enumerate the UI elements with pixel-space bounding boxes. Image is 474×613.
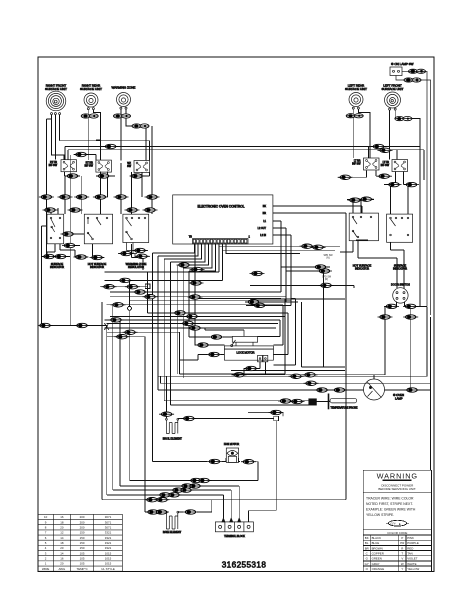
- wire lock loop bottom: [180, 299, 286, 375]
- svg-text:INF SW: INF SW: [352, 162, 361, 165]
- wire sw1 lower link: [65, 172, 150, 176]
- connector RR unit: [81, 114, 98, 118]
- svg-text:L2 OUT: L2 OUT: [258, 227, 267, 230]
- svg-text:20: 20: [60, 546, 64, 550]
- svg-text:3071: 3071: [105, 515, 112, 519]
- infinite switch RT FR: [49, 160, 77, 172]
- connector col c: [74, 195, 89, 199]
- connector box A top: [43, 208, 58, 212]
- wire broil square node: [249, 416, 279, 522]
- svg-text:GREEN: GREEN: [372, 557, 382, 561]
- svg-text:1015: 1015: [105, 556, 112, 560]
- wire below box C: [118, 243, 150, 257]
- sensor TEMPERATURE PROBE: [309, 394, 358, 410]
- motor LOCK MOTOR: [224, 330, 273, 362]
- connector top bus a: [103, 144, 118, 148]
- surface unit LEFT FRONT: [381, 84, 403, 111]
- svg-text:GY: GY: [365, 562, 369, 566]
- wire probe link: [316, 401, 330, 403]
- svg-text:SURFACE UNIT: SURFACE UNIT: [45, 87, 67, 91]
- svg-text:R: R: [401, 546, 403, 550]
- wire spd down: [323, 271, 325, 367]
- connector door d: [403, 315, 418, 319]
- wire fan-out h5: [130, 299, 292, 301]
- wire bundle verticals: [153, 253, 189, 462]
- connector fanout h: [181, 321, 196, 325]
- svg-text:150: 150: [80, 541, 85, 545]
- connector fanout g: [109, 318, 124, 322]
- wire sw1 to sw2 link: [74, 155, 96, 161]
- wire sw4 lower: [347, 200, 374, 214]
- motor FAN MOTOR: [224, 442, 239, 463]
- connector stair2b: [167, 493, 182, 497]
- connector bake R: [183, 510, 198, 514]
- svg-text:YELLOW: YELLOW: [407, 567, 419, 571]
- wire probe feeds: [248, 413, 283, 417]
- svg-text:BROIL ELEMENT: BROIL ELEMENT: [163, 437, 183, 440]
- connector fan R: [241, 460, 256, 464]
- infinite switch LT RR: [352, 158, 379, 170]
- lamp OVEN LAMP: [364, 379, 405, 401]
- controller ELECTRONIC OVEN CONTROL: [173, 195, 273, 244]
- svg-text:16: 16: [60, 515, 64, 519]
- svg-text:PURPLE: PURPLE: [407, 541, 419, 545]
- svg-text:16: 16: [60, 556, 64, 560]
- svg-text:COLOR CODE: COLOR CODE: [387, 531, 407, 535]
- wire stub drops: [258, 305, 288, 355]
- connector stair3b: [197, 478, 212, 482]
- wire bus L2 top: [68, 150, 424, 180]
- wire fan-out h7: [148, 312, 288, 314]
- wire square node: [145, 284, 150, 296]
- svg-text:UL STYLE: UL STYLE: [101, 567, 115, 571]
- wire hub h1: [100, 272, 148, 313]
- wire fan-out h11: [105, 327, 277, 329]
- svg-text:316255318: 316255318: [222, 561, 267, 570]
- connector below sw3: [130, 174, 145, 178]
- svg-text:INF SW: INF SW: [49, 164, 58, 167]
- connector fanout c: [143, 295, 158, 299]
- indicator box SURFACE INDICATOR: [47, 214, 64, 269]
- wire box A lower: [42, 244, 143, 270]
- connector spd d: [317, 269, 332, 273]
- connector broil: [181, 416, 196, 420]
- svg-text:INDICATOR: INDICATOR: [90, 265, 104, 269]
- wire LF surface unit leads: [390, 110, 420, 296]
- wire fan-out h4: [110, 292, 286, 297]
- svg-text:14: 14: [60, 536, 64, 540]
- wire box A feed: [44, 155, 80, 325]
- indicator box HOT SURFACE INDICATOR: [84, 214, 112, 269]
- svg-text:L2 IN: L2 IN: [260, 234, 266, 237]
- svg-text:V: V: [401, 557, 403, 561]
- connector fanout b: [133, 290, 148, 294]
- svg-text:TAN: TAN: [407, 551, 413, 555]
- heating element BROIL ELEMENT: [163, 418, 183, 440]
- connector fanout a: [118, 278, 133, 282]
- connector col d: [93, 195, 108, 199]
- svg-text:G/Y-: G/Y-: [391, 522, 397, 526]
- wire door to lamp: [231, 302, 431, 390]
- wire fan-out h9: [105, 319, 281, 321]
- wire fan-out h2: [105, 250, 223, 280]
- connector tb3: [171, 488, 186, 492]
- wire rbox down: [340, 241, 404, 289]
- wire bus D: [164, 400, 309, 402]
- svg-text:105: 105: [80, 562, 85, 566]
- svg-text:REGULATOR: REGULATOR: [128, 265, 144, 269]
- svg-text:BLUE: BLUE: [372, 541, 380, 545]
- surface unit WARMING ZONE: [112, 86, 136, 110]
- svg-text:C: C: [366, 551, 368, 555]
- svg-text:1015: 1015: [105, 551, 112, 555]
- connector below sw2: [96, 174, 111, 178]
- svg-text:FAN MOTOR: FAN MOTOR: [224, 442, 239, 446]
- connector A-B: [61, 232, 76, 236]
- svg-text:LOCK MOTOR: LOCK MOTOR: [236, 351, 254, 355]
- svg-text:YELLOW STRIPE.: YELLOW STRIPE.: [366, 513, 394, 517]
- connector below sw1: [65, 174, 80, 178]
- wire bus C: [158, 296, 420, 390]
- svg-text:10: 10: [44, 515, 48, 519]
- regulator box WARMING ZONE REGULATOR: [123, 214, 149, 269]
- svg-text:TRACER WIRE: WIRE COLOR: TRACER WIRE: WIRE COLOR: [366, 496, 414, 500]
- connector fanout j: [123, 330, 138, 334]
- connector fanout e: [173, 311, 188, 315]
- indicator box HOT SURFACE INDICATOR (right): [349, 213, 378, 271]
- svg-text:TEMPERATURE PROBE: TEMPERATURE PROBE: [331, 406, 358, 409]
- surface unit LEFT REAR: [345, 84, 367, 110]
- connector fan L: [207, 459, 222, 463]
- wire tb feed1: [120, 486, 239, 518]
- svg-text:105: 105: [80, 556, 85, 560]
- svg-text:105: 105: [80, 551, 85, 555]
- svg-text:LAMP: LAMP: [395, 397, 403, 401]
- connector lock a: [246, 300, 261, 304]
- wire bus B: [161, 317, 431, 383]
- wire lock bottom: [231, 362, 265, 375]
- connector fanout d: [111, 303, 126, 307]
- svg-text:BR: BR: [365, 546, 369, 550]
- wire EOC pins right: [219, 244, 340, 254]
- svg-text:200: 200: [80, 525, 85, 529]
- connector top bus c: [378, 148, 393, 152]
- svg-text:BEFORE SERVICING UNIT.: BEFORE SERVICING UNIT.: [378, 487, 416, 491]
- infinite switch WARM ZONE: [127, 161, 149, 173]
- svg-text:INDICATOR: INDICATOR: [393, 267, 407, 271]
- svg-text:INF SW: INF SW: [381, 164, 390, 167]
- switch ON LAMP SW: [390, 62, 414, 76]
- wire bus A: [158, 306, 427, 376]
- wire gauge table: [38, 514, 122, 571]
- connector pinrow c: [189, 281, 204, 285]
- svg-text:✱ ON LAMP SW: ✱ ON LAMP SW: [391, 62, 414, 66]
- connector sw5 a: [387, 182, 402, 186]
- connector pinrow d: [188, 295, 203, 299]
- svg-text:GRAY: GRAY: [372, 562, 380, 566]
- connector box C top: [125, 208, 140, 212]
- connector mid right: [319, 283, 334, 287]
- svg-text:WARNING: WARNING: [377, 471, 418, 480]
- svg-text:(N): (N): [326, 258, 329, 260]
- wire LR surface unit leads: [353, 109, 370, 158]
- svg-text:TERMINAL BLOCK: TERMINAL BLOCK: [224, 535, 245, 538]
- connector col b: [58, 195, 73, 199]
- connector sw4 b: [377, 174, 392, 178]
- wire bus E: [171, 390, 364, 405]
- svg-text:INDICATOR: INDICATOR: [50, 265, 64, 269]
- connector below B2: [90, 255, 105, 259]
- connector lock d: [196, 343, 211, 347]
- label SPD SW (N): [323, 255, 333, 260]
- svg-text:BLACK: BLACK: [372, 536, 382, 540]
- wire door sw bottom: [385, 302, 427, 391]
- connector lock c: [209, 335, 224, 339]
- surface unit RIGHT FRONT (dual coil): [45, 84, 67, 115]
- wire right low: [430, 383, 432, 470]
- wire fan-out h10: [107, 322, 279, 324]
- surface unit RIGHT REAR: [80, 84, 102, 110]
- svg-text:SURFACE UNIT: SURFACE UNIT: [345, 87, 367, 91]
- connector pinrow b: [190, 267, 205, 271]
- wire tb feed3: [107, 495, 224, 518]
- connector hub left: [75, 323, 90, 327]
- svg-text:INDICATOR: INDICATOR: [355, 267, 369, 271]
- wire bake left: [145, 512, 166, 513]
- svg-text:TB: TB: [189, 236, 192, 239]
- svg-text:14: 14: [60, 551, 64, 555]
- svg-text:WARMING ZONE: WARMING ZONE: [112, 86, 136, 90]
- wire fan-out h8: [110, 315, 285, 317]
- connector box C out b: [119, 251, 134, 255]
- connector door a: [384, 304, 399, 308]
- svg-text:150: 150: [80, 536, 85, 540]
- connector box C out c: [135, 254, 150, 258]
- svg-text:RED: RED: [407, 546, 413, 550]
- warning box: [363, 470, 431, 571]
- heating element BAKE ELEMENT: [163, 511, 182, 534]
- terminal block: [215, 518, 253, 538]
- connector hub a: [102, 285, 117, 289]
- connector lock b: [252, 303, 267, 307]
- connector sw4 d: [359, 197, 374, 201]
- svg-text:18: 18: [60, 520, 64, 524]
- connector spd sw b: [311, 245, 326, 249]
- connector mid pair: [250, 271, 265, 275]
- svg-text:INF SW: INF SW: [85, 164, 94, 167]
- svg-text:BROWN: BROWN: [372, 546, 383, 550]
- connector on lamp feed: [404, 78, 421, 82]
- connector sw5 b: [404, 182, 419, 186]
- wire box A-B link: [64, 233, 85, 235]
- switch DOOR SWITCH: [391, 283, 410, 304]
- svg-text:PR: PR: [400, 541, 404, 545]
- connector LR unit: [346, 114, 363, 118]
- connector LF unit: [395, 117, 412, 121]
- indicator box SURFACE INDICATOR (right): [387, 214, 413, 271]
- svg-text:AWG: AWG: [58, 567, 66, 571]
- connector stair2a: [158, 493, 173, 497]
- connector bus B1: [304, 381, 319, 385]
- svg-text:NOTED FIRST, STRIPE NEXT.: NOTED FIRST, STRIPE NEXT.: [366, 502, 413, 506]
- svg-text:1015: 1015: [105, 562, 112, 566]
- svg-text:BK: BK: [263, 205, 267, 208]
- connector below A2: [53, 254, 68, 258]
- svg-text:WHITE: WHITE: [407, 562, 416, 566]
- svg-text:Y: Y: [401, 567, 403, 571]
- connector tb1: [180, 484, 195, 488]
- svg-text:18: 18: [60, 541, 64, 545]
- svg-text:DOOR SWITCH: DOOR SWITCH: [391, 283, 410, 287]
- wire fan return: [130, 462, 258, 481]
- connector lock e: [207, 352, 222, 356]
- svg-text:BR: BR: [263, 212, 267, 215]
- connector door-lamp: [303, 373, 318, 377]
- svg-text:3321: 3321: [105, 536, 112, 540]
- svg-text:P: P: [401, 536, 403, 540]
- svg-text:200: 200: [80, 520, 85, 524]
- connector hub b: [125, 285, 140, 289]
- wire RR surface unit leads: [88, 110, 100, 161]
- svg-text:COPPER: COPPER: [372, 551, 384, 555]
- connector below A1: [42, 254, 57, 258]
- connector col a: [39, 195, 54, 199]
- connector col e: [114, 195, 129, 199]
- wire from on-lamp-sw bottom: [396, 76, 431, 316]
- connector bake L2: [154, 510, 169, 514]
- connector warming zone: [113, 114, 130, 118]
- wire hub crossing: [42, 226, 120, 500]
- connector probe a: [278, 399, 293, 403]
- svg-text:EXAMPLE: GREEN WIRE WITH: EXAMPLE: GREEN WIRE WITH: [366, 508, 416, 512]
- connector on lamp sw out: [408, 69, 425, 73]
- svg-text:SURFACE UNIT: SURFACE UNIT: [80, 87, 102, 91]
- connector stair3a: [189, 478, 204, 482]
- svg-text:(R): (R): [325, 279, 328, 281]
- wire broil left: [165, 376, 167, 418]
- connector bus C1: [315, 388, 330, 392]
- connector door c: [378, 315, 393, 319]
- wire lock loop inner: [191, 299, 296, 365]
- svg-text:150: 150: [80, 546, 85, 550]
- connector bus F2: [155, 498, 170, 502]
- svg-text:3071: 3071: [105, 525, 112, 529]
- wire from on-lamp-sw right: [402, 71, 427, 306]
- svg-text:T: T: [401, 551, 403, 555]
- svg-text:BL: BL: [365, 541, 369, 545]
- connector lamp right: [405, 388, 420, 392]
- wire bus F: [102, 213, 346, 500]
- wire bus L1 top: [65, 147, 420, 161]
- connector col f: [145, 195, 160, 199]
- connector below B1: [74, 255, 89, 259]
- connector sw1 out: [74, 152, 89, 156]
- connector box C top 2: [143, 208, 158, 212]
- svg-text:ORANGE: ORANGE: [372, 567, 385, 571]
- svg-text:20: 20: [60, 525, 64, 529]
- connector box C out a: [133, 248, 148, 252]
- svg-text:12: 12: [60, 531, 64, 535]
- wire EOC right stubs: [273, 206, 362, 306]
- connector lamp: [332, 388, 347, 392]
- connector spd c: [313, 265, 328, 269]
- connector probe b: [290, 399, 305, 403]
- svg-text:3321: 3321: [105, 531, 112, 535]
- connector lock g: [232, 373, 247, 377]
- svg-text:SPD SW: SPD SW: [323, 255, 333, 257]
- wire lamp left: [363, 389, 365, 391]
- svg-text:W: W: [401, 562, 404, 566]
- connector bus A1: [289, 374, 304, 378]
- connector bus F1: [145, 498, 160, 502]
- wire EOC pin drops: [153, 244, 216, 271]
- label SPD SW (R): [322, 277, 332, 282]
- svg-text:ELECTRONIC OVEN CONTROL: ELECTRONIC OVEN CONTROL: [198, 205, 245, 209]
- connector probe c: [269, 410, 284, 414]
- connector bake L: [146, 510, 161, 514]
- svg-text:200: 200: [80, 515, 85, 519]
- wire sw4 bottoms: [338, 171, 417, 185]
- connector box mid: [62, 243, 77, 247]
- connector warming zone 2: [132, 124, 149, 128]
- wire spd lower: [245, 267, 354, 305]
- wire fan-out h3: [110, 267, 281, 292]
- wire right box feeds: [391, 185, 409, 215]
- wire fan left: [153, 458, 241, 462]
- svg-text:WIRE: WIRE: [42, 567, 50, 571]
- wire sw row drops: [65, 126, 152, 214]
- connector sw4 c: [347, 198, 362, 202]
- connector hub c: [114, 335, 129, 339]
- connector lock f: [244, 366, 259, 370]
- EOC pin strip squares: [193, 239, 247, 243]
- svg-text:►: ►: [399, 522, 402, 526]
- svg-text:SURFACE UNIT: SURFACE UNIT: [381, 87, 403, 91]
- svg-text:BAKE ELEMENT: BAKE ELEMENT: [163, 531, 182, 534]
- connector broil top: [159, 412, 174, 416]
- svg-text:20: 20: [60, 562, 64, 566]
- infinite switch LT FR: [381, 160, 408, 172]
- wire tb feed2: [113, 490, 231, 518]
- wire sw4 feeds: [369, 147, 398, 160]
- svg-text:3071: 3071: [105, 520, 112, 524]
- wire fan-out h12: [107, 331, 181, 333]
- wire lock feed: [180, 244, 244, 360]
- svg-text:TEMP°C: TEMP°C: [76, 567, 87, 571]
- connector pinrow a: [177, 263, 192, 267]
- wire junction circle: [128, 280, 132, 481]
- connector sw4 a: [338, 175, 353, 179]
- svg-text:3321: 3321: [105, 541, 112, 545]
- connector fanout f: [185, 314, 200, 318]
- connector fanout i: [188, 326, 203, 330]
- connector box B top: [68, 208, 83, 212]
- connector hub far left: [38, 323, 53, 327]
- wire broil right: [178, 417, 274, 419]
- connector tb2: [188, 484, 203, 488]
- wire warming zone leads: [121, 109, 146, 160]
- svg-text:150: 150: [80, 531, 85, 535]
- wire L1 label stub: [356, 239, 368, 241]
- wire bake right: [178, 500, 212, 512]
- connector spd sw a: [300, 244, 315, 248]
- connector door b: [403, 304, 418, 308]
- wire fan-out h6: [107, 304, 284, 306]
- border frame: [38, 57, 434, 572]
- connector top bus b: [371, 144, 386, 148]
- svg-text:VIOLET: VIOLET: [407, 557, 418, 561]
- connector stair1b: [179, 488, 194, 492]
